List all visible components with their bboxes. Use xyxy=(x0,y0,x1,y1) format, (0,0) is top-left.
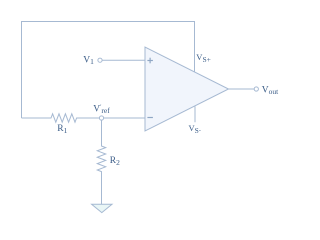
svg-text:Vout: Vout xyxy=(262,85,279,96)
svg-text:V1: V1 xyxy=(83,56,94,67)
svg-text:V′ref: V′ref xyxy=(93,104,110,115)
svg-text:VS-: VS- xyxy=(189,123,201,135)
svg-text:VS+: VS+ xyxy=(196,52,211,64)
svg-text:R1: R1 xyxy=(57,124,67,135)
svg-text:R2: R2 xyxy=(110,156,120,167)
